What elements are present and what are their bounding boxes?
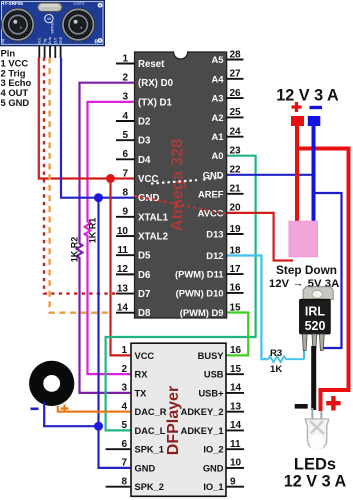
svg-text:27: 27 (230, 69, 242, 80)
svg-text:12 V 3 A: 12 V 3 A (276, 87, 339, 105)
svg-text:Step Down: Step Down (276, 263, 337, 277)
svg-text:USB+: USB+ (198, 388, 224, 398)
svg-text:GND: GND (135, 463, 156, 473)
DFPlayer pin 6 stub (106, 448, 131, 450)
junction node GND rail (94, 193, 103, 202)
Atmega pin 5 stub (116, 139, 135, 141)
svg-text:12V: 12V (269, 278, 290, 290)
wire: 12V+ branch to LED plus (thick red, right edge) (297, 149, 349, 412)
svg-text:12 V 3 A: 12 V 3 A (284, 473, 347, 491)
wire: Atmega pin18 D12 (cyan) down to R3 (227, 256, 268, 360)
svg-text:IRL: IRL (305, 305, 326, 319)
svg-text:D12: D12 (206, 250, 223, 261)
svg-text:ADKEY_1: ADKEY_1 (181, 426, 224, 436)
ultrasonic sensor HY-SRF05 module (0, 0, 105, 58)
svg-text:A5: A5 (212, 54, 224, 65)
svg-text:28: 28 (230, 49, 242, 60)
svg-text:15: 15 (230, 302, 242, 313)
transistor Q1 IRL520 tab (303, 287, 333, 300)
Atmega pin 12 stub (116, 273, 135, 275)
Atmega pin 9 stub (116, 216, 135, 218)
svg-text:D5: D5 (138, 251, 151, 262)
wire: sensor Trig (dashed red) to Atmega pin13 D7 (44, 58, 116, 294)
svg-text:A2: A2 (212, 112, 224, 123)
LED leads (311, 408, 313, 420)
svg-text:(PWM) D11: (PWM) D11 (175, 269, 223, 280)
wire: speaker minus (blue) to GND rail (44, 402, 98, 426)
svg-text:11: 11 (117, 245, 128, 256)
wire: sensor GND (blue) to Atmega pin8 GND (61, 58, 135, 198)
Atmega pin 28 stub (227, 59, 244, 61)
svg-text:D13: D13 (206, 229, 223, 240)
svg-text:A0: A0 (212, 150, 224, 161)
svg-text:14: 14 (117, 303, 129, 314)
wire: 12V+ thick red down to step-down input (295, 126, 299, 221)
sensor pin list text (1, 48, 32, 109)
svg-text:USB: USB (204, 370, 224, 380)
Atmega pin 24 stub (227, 136, 244, 138)
svg-text:11: 11 (230, 439, 241, 450)
svg-text:→: → (293, 278, 304, 290)
internal dotted link VCC-GND (white) (152, 180, 196, 183)
svg-text:26: 26 (230, 88, 242, 99)
svg-text:10: 10 (230, 458, 242, 469)
svg-text:6: 6 (122, 149, 128, 160)
wire: VCC rail (red) down to DFPlayer pin1 VCC (111, 179, 132, 356)
svg-text:4: 4 (121, 401, 127, 412)
svg-text:15: 15 (230, 364, 242, 375)
crystal oscillator on sensor (38, 3, 63, 12)
svg-text:TX: TX (135, 388, 148, 398)
svg-text:SPK_2: SPK_2 (135, 482, 164, 492)
plus label (LED) red (326, 396, 340, 411)
DFPlayer right pin 14 stub (226, 392, 244, 394)
Atmega pin 27 stub (227, 78, 244, 80)
wire: R3 to IRL520 gate leg (303, 347, 305, 359)
wire: speaker plus (orange) to DFPlayer pin4 DAC_R (58, 406, 131, 412)
svg-text:18: 18 (230, 245, 242, 256)
svg-text:(TX) D1: (TX) D1 (138, 97, 173, 108)
svg-text:10: 10 (117, 226, 129, 237)
svg-text:22: 22 (230, 165, 242, 176)
svg-text:D2: D2 (138, 117, 150, 128)
wire: sensor Echo (dashed orange) to Atmega pin14 D8 (50, 58, 112, 313)
svg-text:Atmega 328: Atmega 328 (168, 139, 186, 232)
Atmega pin 1 stub (116, 63, 135, 65)
svg-text:13: 13 (230, 401, 242, 412)
svg-text:A1: A1 (212, 131, 224, 142)
svg-text:HY-SRF05: HY-SRF05 (1, 1, 23, 6)
DFPlayer pin 8 stub (106, 486, 131, 488)
wire: IRL520 source leg to LED minus (thick black) (311, 346, 316, 410)
DFPlayer right pin 10 stub (226, 467, 244, 469)
wire: GND rail (blue) down to DFPlayer pin7 GND (99, 198, 132, 468)
svg-text:49: 49 (47, 16, 52, 21)
svg-text:SPK_1: SPK_1 (135, 445, 164, 455)
svg-text:D7: D7 (138, 289, 150, 300)
minus terminal symbol (310, 106, 323, 109)
svg-text:19: 19 (230, 224, 242, 235)
svg-text:3: 3 (122, 92, 128, 103)
DFPlayer right pin 9 stub (226, 486, 244, 488)
svg-text:6: 6 (121, 439, 127, 450)
svg-text:D8: D8 (138, 308, 151, 319)
step-down converter module (pink) (289, 221, 318, 257)
svg-text:LEDs: LEDs (294, 456, 336, 474)
svg-text:BUSY: BUSY (198, 351, 225, 361)
svg-text:OUT: OUT (54, 37, 58, 44)
svg-text:4: 4 (122, 111, 128, 122)
svg-text:VCC: VCC (38, 37, 42, 44)
svg-text:GND: GND (203, 463, 224, 473)
Atmega pin 10 stub (116, 235, 135, 237)
wire: Atmega pin15 D9 (lime) to DFPlayer pin16 BUSY (226, 313, 248, 356)
transistor Q1 IRL520 body (300, 299, 331, 334)
svg-text:13: 13 (117, 283, 129, 294)
svg-text:DAC_L: DAC_L (135, 426, 166, 436)
svg-text:XTAL2: XTAL2 (138, 232, 168, 243)
svg-text:AREF: AREF (198, 188, 224, 199)
terminal block minus (blue) (308, 116, 321, 126)
plus terminal symbol (292, 102, 302, 112)
svg-text:16: 16 (230, 283, 242, 294)
svg-text:24: 24 (230, 127, 242, 138)
DFPlayer right pin 13 stub (226, 411, 244, 413)
svg-text:DAC_R: DAC_R (135, 407, 167, 417)
svg-text:D4: D4 (138, 155, 151, 166)
Atmega pin 21 stub (227, 193, 244, 195)
svg-text:SRF05: SRF05 (50, 21, 55, 34)
svg-text:DFPlayer: DFPlayer (165, 386, 182, 455)
svg-text:IO_2: IO_2 (203, 445, 223, 455)
svg-text:9: 9 (122, 207, 128, 218)
svg-text:T: T (2, 40, 5, 46)
svg-text:A3: A3 (212, 93, 224, 104)
svg-text:2: 2 (121, 364, 127, 375)
svg-text:520: 520 (305, 319, 326, 333)
transducer R (right) (62, 8, 95, 41)
sensor pin header (5 pins) (38, 36, 63, 58)
svg-text:25: 25 (230, 107, 242, 118)
Atmega pin 6 stub (116, 158, 135, 160)
svg-text:IO_1: IO_1 (203, 482, 223, 492)
svg-text:(RX) D0: (RX) D0 (138, 78, 173, 89)
DFPlayer module body (131, 343, 226, 496)
Atmega pin 19 stub (227, 233, 244, 235)
svg-text:1K R1: 1K R1 (87, 218, 97, 244)
DFPlayer right pin 11 stub (226, 448, 244, 450)
svg-text:21: 21 (230, 184, 242, 195)
internal dotted link GND-AVCC (red) (136, 196, 225, 214)
minus label (LED) (295, 404, 308, 409)
svg-text:A4: A4 (212, 73, 225, 84)
DFPlayer right pin 15 stub (226, 373, 244, 375)
IC U1 Atmega 328 body (135, 52, 227, 318)
svg-text:VCC: VCC (135, 351, 155, 361)
svg-text:17: 17 (230, 264, 242, 275)
svg-text:16: 16 (230, 345, 242, 356)
svg-text:(PWM) D9: (PWM) D9 (180, 307, 224, 318)
Atmega pin 14 stub (116, 312, 135, 314)
svg-text:Reset: Reset (138, 59, 165, 70)
svg-text:126203: 126203 (73, 2, 84, 6)
svg-text:R: R (95, 40, 99, 46)
svg-text:VCC: VCC (138, 174, 158, 185)
svg-text:5: 5 (121, 420, 127, 431)
LED bulb (305, 419, 329, 450)
svg-text:XTAL1: XTAL1 (138, 212, 169, 223)
speaker (29, 361, 74, 406)
wire: Atmega pin23 A0 (teal) down across to DFPlayer pin5 DAC_L (106, 156, 256, 431)
svg-text:1K R2: 1K R2 (69, 237, 79, 263)
svg-text:9: 9 (230, 476, 236, 487)
svg-text:1: 1 (121, 345, 127, 356)
speaker plus label (61, 405, 69, 413)
svg-text:5 GND: 5 GND (1, 97, 30, 108)
DFPlayer right pin 14 stub (226, 429, 244, 431)
wire: sensor VCC (red) pin1 down then to Atmega pin7 VCC (39, 58, 135, 179)
svg-text:3: 3 (121, 383, 127, 394)
svg-text:20: 20 (230, 203, 242, 214)
Atmega pin 25 stub (227, 116, 244, 118)
svg-text:2: 2 (122, 72, 128, 83)
svg-text:D3: D3 (138, 136, 151, 147)
terminal block plus (red) (291, 116, 304, 126)
svg-text:23: 23 (230, 146, 242, 157)
svg-text:8: 8 (122, 187, 128, 198)
svg-text:14: 14 (230, 420, 242, 431)
Atmega pin 13 stub (116, 293, 135, 295)
svg-text:GND: GND (59, 36, 63, 44)
svg-text:(PWN) D10: (PWN) D10 (176, 287, 224, 298)
svg-text:Trig: Trig (43, 38, 47, 44)
svg-text:7: 7 (121, 458, 127, 469)
wire: 12V- thick blue down to step-down input (312, 126, 316, 221)
svg-text:Echo: Echo (48, 37, 52, 44)
Atmega pin 11 stub (116, 254, 135, 256)
svg-text:D6: D6 (138, 270, 151, 281)
svg-text:14: 14 (230, 383, 242, 394)
Atmega pin 16 stub (227, 292, 244, 294)
svg-text:12: 12 (117, 264, 129, 275)
speaker minus label (31, 408, 39, 411)
sensor centre logo (45, 14, 53, 22)
wire: Atmega pin20 AVCC (red) to step-down 5V output (227, 213, 293, 261)
junction node VCC rail (106, 174, 115, 183)
svg-text:5: 5 (122, 130, 128, 141)
svg-text:8: 8 (121, 476, 127, 487)
wire: Atmega pin3 TX/D1 (magenta) through R1 down to DFPlayer pin2 RX (85, 102, 135, 374)
svg-text:RX: RX (135, 370, 149, 380)
svg-text:ADKEY_2: ADKEY_2 (181, 407, 224, 417)
svg-text:1: 1 (122, 53, 128, 64)
resistor R3 zigzag (268, 356, 304, 362)
Atmega pin 26 stub (227, 97, 244, 99)
wire: Atmega pin22 GND (blue) to 12V minus rail (227, 174, 314, 176)
junction node speaker GND (94, 422, 103, 431)
Atmega pin 4 stub (116, 120, 135, 122)
IRL520 legs (302, 334, 307, 351)
transducer T (left) (1, 8, 34, 41)
Atmega pin 17 stub (227, 273, 244, 275)
wire: minus branch (blue) to IRL520 drain leg (314, 193, 342, 348)
svg-text:R3: R3 (270, 348, 282, 359)
wire: Atmega pin2 RX/D0 (purple) through R2 down to DFPlayer pin3 TX (77, 83, 135, 393)
svg-text:1K: 1K (270, 364, 282, 375)
svg-text:7: 7 (122, 168, 128, 179)
